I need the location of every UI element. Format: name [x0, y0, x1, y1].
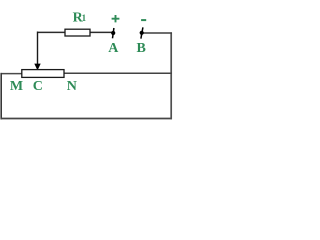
- svg-text:M: M: [10, 79, 23, 94]
- wire: right vertical: [170, 32, 172, 119]
- terminal B tick: [141, 27, 143, 38]
- wiper arrowhead onto pot: [34, 64, 40, 71]
- wire: B terminal to right corner: [143, 32, 172, 34]
- wire: top horizontal through R1: [37, 31, 112, 33]
- potentiometer body (rheostat MN): [22, 70, 64, 78]
- resistor R1 body: [65, 29, 90, 36]
- plus sign above A: [112, 15, 120, 22]
- svg-text:A: A: [108, 41, 119, 56]
- svg-text:B: B: [137, 41, 146, 56]
- terminal A dot: [111, 31, 115, 35]
- wire: wiper drop from top wire: [37, 32, 39, 65]
- wire: left vertical: [0, 73, 2, 120]
- svg-text:1: 1: [82, 13, 87, 23]
- svg-text:C: C: [33, 79, 43, 94]
- terminal A tick: [113, 28, 114, 38]
- wire: bottom horizontal: [1, 118, 173, 120]
- minus sign above B: [141, 19, 146, 21]
- svg-text:N: N: [67, 79, 77, 94]
- terminal B dot: [140, 31, 144, 35]
- wire: pot left stub: [1, 73, 22, 75]
- wire: pot N terminal to right vertical: [64, 72, 172, 74]
